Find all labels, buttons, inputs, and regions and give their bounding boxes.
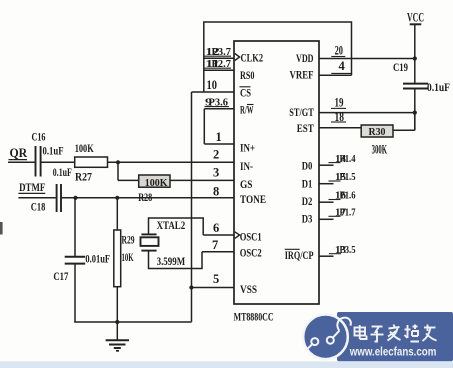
svg-text:P3.5: P3.5 <box>340 245 356 256</box>
bottom light blue band <box>0 361 453 368</box>
svg-text:0.01uF: 0.01uF <box>85 253 110 265</box>
svg-text:18: 18 <box>335 110 345 124</box>
svg-text:VSS: VSS <box>240 282 257 296</box>
svg-text:XTAL2: XTAL2 <box>157 220 186 232</box>
pin 11 RS0 stub / net P2.7 <box>204 58 234 70</box>
svg-text:R30: R30 <box>369 127 386 138</box>
pin 8 TONE input wire from DTMF <box>18 184 234 198</box>
crystal XTAL2 wiring loop <box>149 218 204 269</box>
clock wedge at CLK2 <box>235 54 240 61</box>
svg-text:10K: 10K <box>122 252 134 264</box>
capacitor C18 0.1uF <box>31 167 72 213</box>
svg-text:0.1uF: 0.1uF <box>427 82 450 94</box>
pin 18 EST wire <box>319 110 361 128</box>
svg-text:VDD: VDD <box>296 51 314 65</box>
svg-text:300K: 300K <box>372 143 388 157</box>
svg-text:0.1uF: 0.1uF <box>53 167 72 179</box>
svg-text:P1.7: P1.7 <box>340 208 356 219</box>
node: junction dot IN- / R28 branch <box>116 160 120 164</box>
svg-text:TONE: TONE <box>240 192 266 206</box>
svg-text:OSC1: OSC1 <box>240 229 262 243</box>
pin 13 IRQ/CP stub / net P3.5 <box>319 245 356 256</box>
watermark: elecfans badge background <box>337 312 453 361</box>
svg-text:CLK2: CLK2 <box>241 50 264 64</box>
wire: vertical joining R/W stub end down to IN+ stub <box>203 109 205 144</box>
pin 9 R/W stub / net P3.6 <box>204 97 234 109</box>
svg-text:DTMF: DTMF <box>19 182 45 194</box>
svg-text:R27: R27 <box>75 172 92 184</box>
resistor R28 100K <box>138 175 170 204</box>
wire: R28 feedback branch vertical <box>117 162 119 180</box>
IC U1 MT8880CC body <box>234 41 319 304</box>
svg-text:EST: EST <box>297 121 314 135</box>
pin 5 VSS stub <box>191 272 234 288</box>
svg-text:www.elecfans.com: www.elecfans.com <box>349 344 437 358</box>
resistor R27 100K <box>75 143 108 184</box>
svg-text:CS: CS <box>240 85 251 99</box>
wire: ground bus <box>74 321 191 323</box>
svg-text:20: 20 <box>335 44 343 58</box>
svg-text:19: 19 <box>335 96 344 110</box>
svg-text:C16: C16 <box>32 132 46 144</box>
svg-text:100K: 100K <box>75 143 94 155</box>
resistor R29 10K <box>114 198 135 322</box>
svg-text:P1.4: P1.4 <box>340 154 357 165</box>
svg-text:3.599M: 3.599M <box>157 256 186 268</box>
svg-text:7: 7 <box>212 238 218 252</box>
pin 17 D3 stub / net P1.7 <box>319 208 356 220</box>
crystal XTAL2 3.599M symbol <box>141 220 186 268</box>
ground <box>106 322 129 351</box>
svg-text:C17: C17 <box>53 271 68 283</box>
pin 12 CLK2 stub / net P3.7 <box>204 46 234 58</box>
svg-text:GS: GS <box>240 177 253 191</box>
node: QR input label <box>9 145 28 160</box>
svg-text:5: 5 <box>213 272 219 286</box>
svg-text:8: 8 <box>213 184 219 198</box>
svg-text:P3.7: P3.7 <box>212 46 232 58</box>
svg-text:P3.6: P3.6 <box>209 97 229 109</box>
svg-text:4: 4 <box>339 59 346 73</box>
wire: top bias rail from left pin rail over to VREF riser <box>204 22 352 92</box>
svg-text:QR: QR <box>10 145 28 160</box>
pin 7 OSC2 stub <box>202 238 234 252</box>
svg-text:ST/GT: ST/GT <box>289 105 314 119</box>
capacitor C16 0.1uF <box>32 132 64 177</box>
clock wedge at OSC1 <box>235 232 240 239</box>
pin 14 D0 stub / net P1.4 <box>319 154 356 165</box>
watermark: elecfans circular logo <box>303 315 351 360</box>
svg-text:100K: 100K <box>145 177 168 189</box>
svg-text:RS0: RS0 <box>240 68 255 82</box>
svg-text:C19: C19 <box>393 62 408 74</box>
svg-text:C18: C18 <box>31 201 46 213</box>
svg-text:D2: D2 <box>302 194 313 208</box>
svg-text:OSC2: OSC2 <box>240 246 262 260</box>
resistor R30 300K <box>361 113 415 157</box>
node: junction dot TONE / C17 branch <box>73 196 77 200</box>
node: DTMF input label <box>18 182 45 194</box>
pin 3 GS wire <box>118 166 234 181</box>
pin 1 IN+ stub <box>204 130 234 144</box>
node: junction dot bus / ground <box>115 320 119 324</box>
svg-text:VCC: VCC <box>407 9 424 24</box>
svg-text:2: 2 <box>213 147 219 161</box>
VCC power symbol <box>407 9 424 83</box>
watermark: CJK title strokes (drawn glyphs) <box>355 325 437 342</box>
svg-text:MT8880CC: MT8880CC <box>234 309 274 323</box>
pin 15 D1 stub / net P1.5 <box>319 172 356 184</box>
pin 2 IN- input wire from QR <box>8 147 234 162</box>
node: junction dot TONE / R29 branch <box>115 196 119 200</box>
svg-text:D1: D1 <box>302 177 313 191</box>
node: junction dot VSS / ground rail <box>189 285 193 289</box>
svg-text:VREF: VREF <box>290 68 314 82</box>
svg-text:D3: D3 <box>302 211 313 225</box>
capacitor C17 0.01uF <box>53 198 110 322</box>
pin 19 ST/GT wire <box>319 96 415 113</box>
svg-text:P1.6: P1.6 <box>340 191 356 202</box>
pin 20 VDD wire <box>319 44 415 59</box>
svg-text:P2.7: P2.7 <box>212 58 232 70</box>
svg-text:R29: R29 <box>122 234 135 246</box>
pin 6 OSC1 stub <box>203 221 234 235</box>
node: junction dot VDD / VCC rail <box>413 56 417 60</box>
svg-text:IN+: IN+ <box>240 141 255 155</box>
wire: CS long rail down to ground bus <box>191 92 193 322</box>
svg-text:P1.5: P1.5 <box>340 172 356 183</box>
svg-text:6: 6 <box>213 221 219 235</box>
node: junction dot ST/GT / guard rail <box>413 111 417 115</box>
svg-text:3: 3 <box>213 166 219 180</box>
pin 4 VREF wire <box>319 59 352 75</box>
svg-text:0.1uF: 0.1uF <box>43 146 64 158</box>
scan artifact at left edge <box>0 222 3 235</box>
svg-text:IN-: IN- <box>240 159 253 173</box>
IC U1 pin names <box>240 50 314 295</box>
svg-text:IRQ/CP: IRQ/CP <box>285 248 314 262</box>
svg-text:1: 1 <box>216 130 222 144</box>
pin 16 D2 stub / net P1.6 <box>319 191 356 203</box>
svg-text:10: 10 <box>207 78 218 92</box>
svg-text:D0: D0 <box>302 158 313 172</box>
pin 10 CS wire <box>192 78 235 92</box>
capacitor C19 0.1uF <box>393 62 450 130</box>
